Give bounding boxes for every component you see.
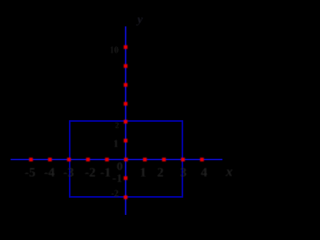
dot (-5,0)	[29, 158, 33, 162]
dot (-2,0)	[86, 158, 90, 162]
dot (-1,0)	[105, 158, 109, 162]
dot (0,0) origin	[124, 158, 128, 162]
dot (0,4)	[124, 83, 128, 87]
svg-text:10: 10	[110, 45, 120, 55]
svg-text:x: x	[225, 164, 233, 179]
svg-text:1: 1	[140, 165, 147, 180]
dot (2,0)	[162, 158, 166, 162]
svg-text:4: 4	[201, 165, 208, 180]
dot (0,3)	[124, 102, 128, 106]
dot (-4,0)	[48, 158, 52, 162]
rectangle	[70, 121, 183, 197]
dot (0,6)	[124, 45, 128, 49]
dot (-3,0)	[67, 158, 71, 162]
x-axis	[11, 159, 223, 161]
svg-text:-1: -1	[112, 171, 122, 185]
svg-text:y: y	[135, 12, 143, 26]
svg-text:3: 3	[180, 165, 187, 180]
dot (1,0)	[143, 158, 147, 162]
svg-text:-1: -1	[100, 165, 111, 180]
svg-text:-5: -5	[25, 165, 36, 180]
y-axis	[125, 26, 127, 215]
dot (0,-1)	[124, 176, 128, 180]
svg-text:-2: -2	[85, 165, 96, 180]
svg-text:2: 2	[157, 165, 164, 180]
dot (4,0)	[200, 158, 204, 162]
svg-text:2: 2	[115, 121, 119, 130]
dot (0,2)	[124, 120, 128, 124]
svg-text:-3: -3	[63, 165, 74, 180]
svg-text:-4: -4	[44, 165, 55, 180]
dot (0,5)	[124, 64, 128, 68]
dot (0,-2)	[124, 195, 128, 199]
dot (0,1)	[124, 139, 128, 143]
svg-text:-2: -2	[111, 189, 119, 199]
dot (3,0)	[181, 158, 185, 162]
svg-text:1: 1	[113, 139, 118, 150]
